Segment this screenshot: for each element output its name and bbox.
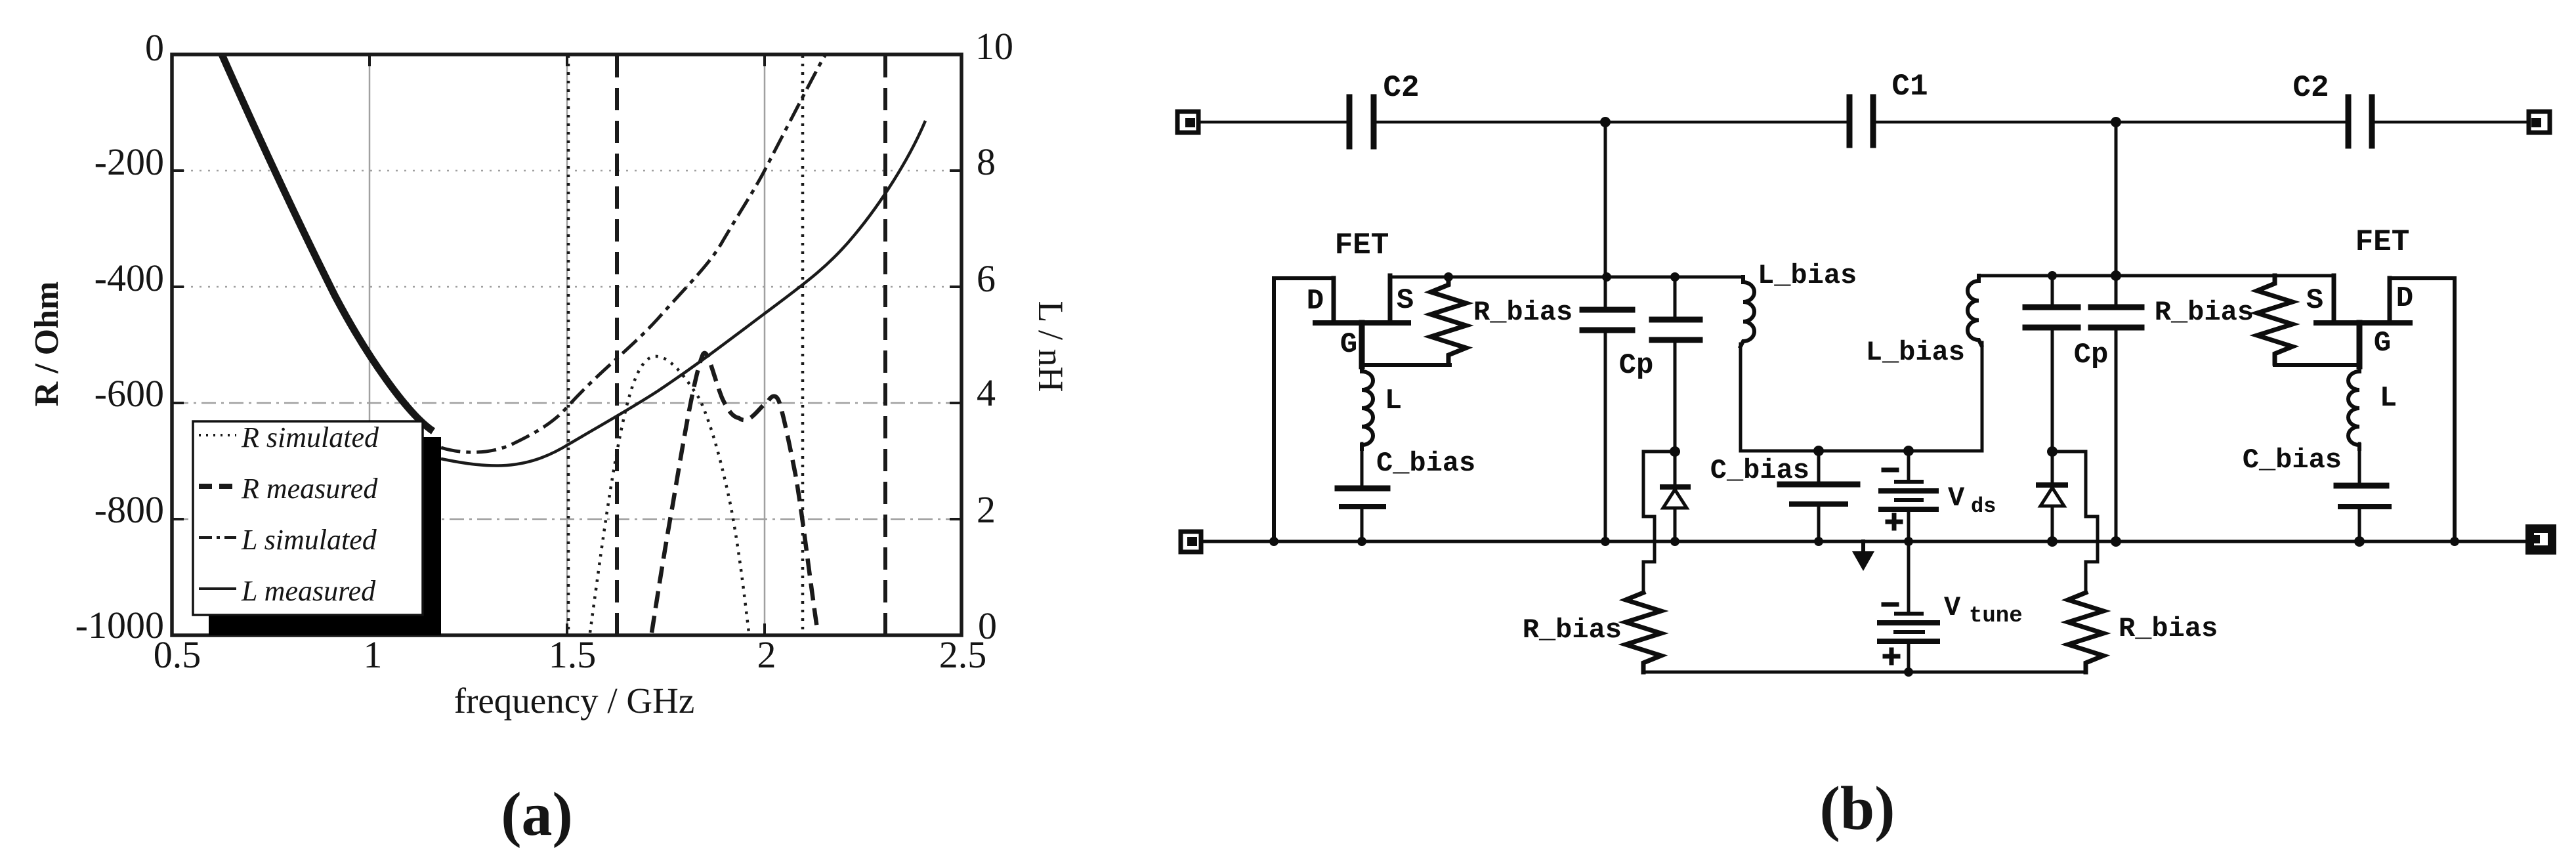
svg-text:-1000: -1000 xyxy=(75,604,164,646)
svg-text:L_bias: L_bias xyxy=(1866,337,1965,368)
port P2 (top right) xyxy=(2529,112,2550,133)
svg-text:(b): (b) xyxy=(1820,774,1895,843)
port P4 (bottom right) xyxy=(2525,524,2556,555)
capacitor C_bias (left) xyxy=(1338,448,1475,507)
wire top rail middle-right xyxy=(1873,121,2348,124)
svg-text:FET: FET xyxy=(2355,225,2410,259)
svg-text:C2: C2 xyxy=(1383,71,1419,105)
diode D2 varactor (right) xyxy=(2038,452,2065,541)
R measured thick falling curve xyxy=(222,54,433,431)
node dot diode branch (right) xyxy=(2047,446,2058,457)
axis ticks xyxy=(172,54,961,635)
svg-text:10: 10 xyxy=(975,25,1013,68)
svg-text:D: D xyxy=(1307,285,1324,318)
R simulated dotted vertical asymptote 2 xyxy=(801,55,805,634)
svg-text:C_bias: C_bias xyxy=(1710,455,1809,486)
svg-text:D: D xyxy=(2396,282,2413,315)
label V_ds xyxy=(1948,482,1996,518)
svg-text:R measured: R measured xyxy=(241,473,378,505)
inductor L (left) xyxy=(1362,366,1402,449)
wire bottom bias bus xyxy=(1643,671,2086,674)
svg-text:0.5: 0.5 xyxy=(154,633,201,676)
svg-text:frequency / GHz: frequency / GHz xyxy=(454,681,695,721)
node N1 junction dot xyxy=(1600,117,1611,127)
wire C_bias to rail (right) xyxy=(2358,507,2361,541)
svg-text:-200: -200 xyxy=(95,140,164,183)
node dot Cp-b top (left) xyxy=(1670,272,1679,282)
svg-text:S: S xyxy=(2306,284,2323,317)
svg-text:L_bias: L_bias xyxy=(1758,260,1857,291)
inductor L (right) xyxy=(2348,366,2397,449)
svg-text:-400: -400 xyxy=(95,257,164,299)
legend samples xyxy=(199,434,236,436)
capacitor C2 (left) xyxy=(1349,71,1420,146)
node dot V_tune bottom xyxy=(1904,667,1913,677)
wire L to C_bias (left) xyxy=(1361,444,1364,487)
wire source bus (right) xyxy=(1979,274,2334,278)
label V_tune xyxy=(1944,592,2023,629)
legend shadow xyxy=(209,437,441,635)
wire L to C_bias (right) xyxy=(2358,444,2361,484)
port P1 (top left) xyxy=(1177,112,1198,133)
svg-text:4: 4 xyxy=(977,371,996,414)
svg-text:2: 2 xyxy=(757,633,776,676)
svg-text:2.5: 2.5 xyxy=(939,633,987,676)
wire jog to lower R_bias (left) xyxy=(1643,452,1675,593)
svg-text:R / Ohm: R / Ohm xyxy=(28,282,66,407)
svg-text:R_bias: R_bias xyxy=(1473,297,1573,328)
svg-text:L: L xyxy=(2380,382,2397,415)
capacitor Cp-a (left) xyxy=(1582,277,1632,541)
svg-text:ds: ds xyxy=(1971,494,1996,518)
inductor L_bias (left) xyxy=(1741,260,1857,347)
capacitor Cp-b (right) xyxy=(2091,276,2142,541)
battery V_tune xyxy=(1880,541,1937,672)
wire source bus (left) xyxy=(1390,276,1743,279)
R measured dashed bump xyxy=(652,353,818,633)
svg-text:tune: tune xyxy=(1969,604,2023,629)
svg-text:C_bias: C_bias xyxy=(1376,448,1475,479)
svg-text:C_bias: C_bias xyxy=(2243,444,2342,476)
node dot C_bias2 top xyxy=(1813,446,1824,456)
svg-text:(a): (a) xyxy=(501,780,573,849)
svg-text:FET: FET xyxy=(1335,228,1389,263)
wire L_bias to mid bus (left) xyxy=(1739,344,1742,451)
R simulated dotted bump xyxy=(590,356,749,633)
node dot Cp-a top (left) xyxy=(1602,272,1611,282)
svg-text:L: L xyxy=(1385,385,1402,417)
R measured dashed vertical asymptote 1 xyxy=(615,55,619,634)
wire gate to R_bias bottom (right) xyxy=(2275,363,2359,367)
svg-text:V: V xyxy=(1944,592,1961,623)
wire top rail left xyxy=(1198,121,1349,124)
svg-text:-800: -800 xyxy=(95,488,164,531)
capacitor C_bias (middle) xyxy=(1710,451,1857,541)
node dot Vds top xyxy=(1903,446,1914,456)
ground arrow at rail xyxy=(1852,541,1874,571)
svg-text:8: 8 xyxy=(977,140,996,183)
wire top rail right xyxy=(2372,121,2529,124)
gridlines xyxy=(174,56,960,634)
wire gate to R_bias bottom (left) xyxy=(1362,363,1450,367)
transistor FET (left) xyxy=(1274,276,1408,540)
svg-text:R simulated: R simulated xyxy=(241,421,379,454)
port P3 (bottom left) xyxy=(1181,532,1201,552)
wire mid bus xyxy=(1741,450,1982,453)
diode D1 varactor (left) xyxy=(1662,452,1688,541)
rail junction dots xyxy=(1269,536,2459,547)
resistor R_bias (left lower) xyxy=(1523,593,1661,672)
svg-text:L / nH: L / nH xyxy=(1031,301,1070,392)
node N2 junction dot xyxy=(2111,117,2121,127)
R simulated dotted vertical asymptote 1 xyxy=(567,55,570,634)
node dot R_bias top (left) xyxy=(1444,272,1453,282)
svg-text:1.5: 1.5 xyxy=(549,633,597,676)
svg-text:Cp: Cp xyxy=(2074,339,2109,371)
svg-text:V: V xyxy=(1948,482,1965,514)
legend text xyxy=(241,421,379,607)
transistor FET (right) xyxy=(2316,276,2455,541)
svg-text:G: G xyxy=(1340,328,1357,361)
L measured solid rising curve xyxy=(441,121,925,466)
plot frame xyxy=(172,54,961,635)
svg-text:G: G xyxy=(2374,327,2391,360)
capacitor Cp-a (right) xyxy=(2025,276,2078,452)
wire drop from node N2 xyxy=(2115,122,2118,276)
svg-text:Cp: Cp xyxy=(1619,349,1654,382)
resistor R_bias (right lower) xyxy=(2068,593,2218,672)
wire jog to lower R_bias (right) xyxy=(2052,452,2098,593)
svg-text:2: 2 xyxy=(977,488,996,531)
svg-text:S: S xyxy=(1397,284,1414,317)
svg-text:1: 1 xyxy=(364,633,383,676)
wire ground rail xyxy=(1201,540,2525,543)
wire C_bias to rail (left) xyxy=(1361,507,1364,541)
svg-text:C1: C1 xyxy=(1891,70,1928,104)
legend box xyxy=(193,421,423,615)
capacitor C2 (right) xyxy=(2292,71,2372,146)
node dot diode branch (left) xyxy=(1670,446,1680,457)
axis tick labels xyxy=(75,26,164,646)
battery V_ds xyxy=(1881,451,1936,541)
svg-text:R_bias: R_bias xyxy=(2155,297,2254,328)
svg-text:-600: -600 xyxy=(95,372,164,415)
svg-text:6: 6 xyxy=(977,257,996,300)
wire drop from node N1 xyxy=(1604,122,1607,277)
capacitor C1 xyxy=(1849,70,1928,145)
svg-text:R_bias: R_bias xyxy=(1523,614,1622,646)
svg-text:L measured: L measured xyxy=(241,575,376,607)
resistor R_bias (right upper) xyxy=(2155,276,2292,364)
wire top rail middle-left xyxy=(1374,121,1849,124)
node dot Cp-a top (right) xyxy=(2048,271,2057,280)
svg-text:L simulated: L simulated xyxy=(241,524,377,556)
node dot Cp-b top (right) xyxy=(2111,270,2121,281)
svg-text:R_bias: R_bias xyxy=(2119,613,2218,644)
svg-text:0: 0 xyxy=(145,26,164,69)
L simulated dash-dot rising curve xyxy=(441,54,826,452)
R measured dashed vertical asymptote 2 xyxy=(883,55,887,634)
resistor R_bias (left upper) xyxy=(1431,277,1573,364)
capacitor C_bias (right) xyxy=(2243,444,2389,507)
inductor L_bias (right) xyxy=(1866,276,1981,368)
capacitor Cp-b (left) xyxy=(1652,277,1700,452)
wire L_bias (right) to mid bus xyxy=(1981,343,1984,451)
svg-text:C2: C2 xyxy=(2292,71,2329,105)
